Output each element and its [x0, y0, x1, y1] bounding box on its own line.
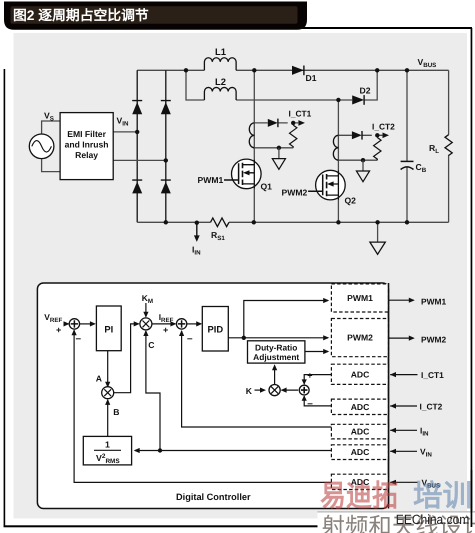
svg-text:+: + — [56, 325, 61, 335]
svg-text:Q1: Q1 — [261, 182, 273, 192]
svg-text:PWM2: PWM2 — [282, 188, 308, 198]
svg-text:EMI Filter: EMI Filter — [67, 129, 106, 139]
svg-text:D2: D2 — [360, 86, 371, 96]
svg-text:K: K — [246, 386, 253, 396]
svg-text:Digital Controller: Digital Controller — [176, 492, 251, 502]
svg-text:+: + — [307, 370, 312, 380]
svg-text:易迪拓: 易迪拓 — [320, 480, 398, 513]
svg-text:Adjustment: Adjustment — [253, 352, 299, 362]
svg-text:Duty-Ratio: Duty-Ratio — [255, 343, 297, 353]
svg-text:+: + — [163, 325, 168, 335]
svg-text:PWM1: PWM1 — [198, 175, 224, 185]
svg-text:–: – — [187, 334, 193, 345]
svg-text:L2: L2 — [215, 76, 226, 87]
svg-text:ADC: ADC — [351, 402, 370, 412]
svg-text:1: 1 — [105, 440, 110, 450]
svg-text:培训: 培训 — [413, 480, 472, 513]
svg-text:I_CT2: I_CT2 — [372, 122, 395, 132]
svg-text:图2 逐周期占空比调节: 图2 逐周期占空比调节 — [13, 8, 149, 23]
svg-text:L1: L1 — [215, 46, 226, 57]
svg-text:I_CT1: I_CT1 — [289, 109, 312, 119]
svg-text:Relay: Relay — [75, 150, 98, 160]
svg-text:PI: PI — [104, 324, 113, 335]
svg-text:ADC: ADC — [351, 427, 370, 437]
svg-text:and Inrush: and Inrush — [65, 139, 109, 149]
svg-text:EEChina.com: EEChina.com — [396, 512, 470, 527]
svg-text:B: B — [113, 407, 119, 417]
svg-text:ADC: ADC — [351, 447, 370, 457]
svg-text:D1: D1 — [306, 73, 317, 83]
svg-text:PID: PID — [207, 324, 223, 335]
svg-text:A: A — [96, 374, 102, 384]
svg-text:I_CT2: I_CT2 — [420, 402, 443, 412]
svg-text:PWM1: PWM1 — [421, 297, 446, 307]
svg-text:C: C — [148, 340, 154, 350]
svg-text:PWM1: PWM1 — [347, 293, 373, 303]
svg-text:PWM2: PWM2 — [421, 335, 446, 345]
svg-text:–: – — [307, 399, 313, 410]
svg-text:I_CT1: I_CT1 — [421, 370, 444, 380]
svg-text:ADC: ADC — [351, 369, 370, 379]
svg-text:–: – — [76, 334, 82, 345]
svg-text:Q2: Q2 — [345, 196, 357, 206]
svg-text:PWM2: PWM2 — [347, 333, 373, 343]
